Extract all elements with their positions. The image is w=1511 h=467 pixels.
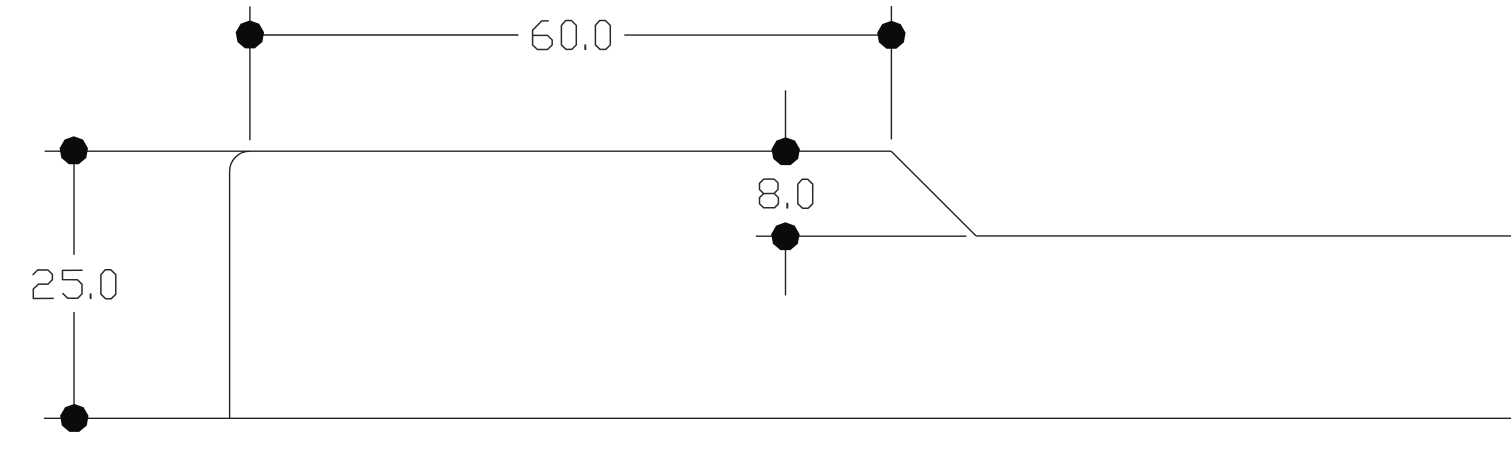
dimension line 25.0 lower segment [73, 312, 75, 418]
dimension text 60.0 digit 0 second [595, 21, 610, 50]
chamfer diagonal edge [891, 151, 976, 236]
dimension text 25.0 digit 0 [101, 270, 116, 299]
dimension text 8.0 decimal point [786, 204, 788, 208]
arrow dot 8.0 bottom [771, 222, 799, 250]
profile left edge x=230 [229, 171, 231, 418]
dimension text 25.0 digit 2 [33, 270, 53, 299]
arrow dot 60.0 left [236, 20, 264, 48]
profile step edge y=236 [976, 235, 1511, 237]
dimension line 25.0 upper segment [73, 151, 75, 255]
extension line 8.0 horizontal y=236 [756, 235, 967, 237]
dimension line 60.0 right segment [624, 34, 891, 36]
extension line right vertical x=891 [890, 6, 892, 140]
profile bottom edge with left extension y=418 [44, 417, 1511, 419]
dimension text 60.0 decimal point [584, 45, 586, 49]
arrow dot 60.0 right [877, 21, 905, 49]
dimension text 60.0 digit 0 first [561, 21, 576, 50]
dimension line 8.0 upper segment [785, 90, 787, 151]
profile top edge with left extension y=151 [45, 150, 892, 152]
dimension line 8.0 lower segment [785, 237, 787, 296]
dimension text 25.0 decimal point [90, 294, 92, 298]
dimension line 60.0 left segment [250, 34, 519, 36]
dimension text 60.0 digit 6 [533, 21, 553, 50]
arrow dot 25.0 bottom [60, 404, 88, 432]
arrow dot 8.0 top [772, 137, 800, 165]
extension line left vertical x=250 [249, 6, 251, 140]
dimension text 25.0 digit 5 [63, 270, 83, 298]
dimension text 8.0 digit 0 [798, 179, 813, 208]
arrow dot 25.0 top [60, 136, 88, 164]
dimension text 8.0 digit 8 [760, 179, 779, 208]
fillet arc top-left corner r=20 [230, 151, 250, 171]
